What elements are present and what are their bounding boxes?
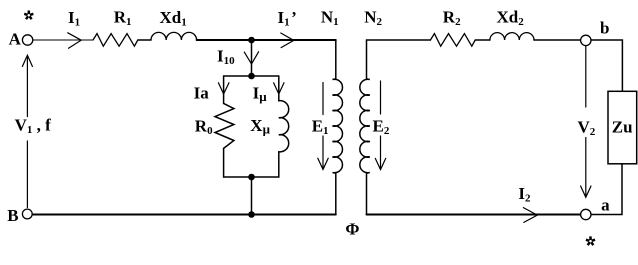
- svg-text:R2: R2: [443, 8, 461, 29]
- wire R0 bottom stub: [223, 148, 225, 177]
- polarity star near A: [24, 11, 33, 20]
- terminal b: [581, 35, 591, 45]
- wire R2 to Xd2: [475, 39, 490, 41]
- inductor Xmu: [279, 101, 289, 152]
- svg-text:b: b: [600, 18, 609, 37]
- svg-text:R0: R0: [195, 117, 213, 138]
- wire Imu branch stub: [278, 76, 280, 101]
- transformer secondary winding N2: [360, 40, 370, 215]
- resistor R1: [93, 34, 138, 47]
- svg-text:V1 , f: V1 , f: [15, 116, 52, 137]
- wire Ia branch stub: [223, 76, 225, 103]
- arrow Imu: [274, 83, 284, 94]
- arrow E2: [375, 81, 385, 170]
- svg-text:Φ: Φ: [345, 220, 359, 239]
- svg-text:N2: N2: [364, 7, 382, 28]
- wire Zu to terminal a: [591, 164, 622, 215]
- wire shunt top rail: [224, 75, 279, 77]
- wire shunt to bottom bus: [251, 177, 253, 215]
- svg-text:Iμ: Iμ: [253, 84, 268, 105]
- arrow Ia: [218, 83, 229, 94]
- wire bottom bus secondary to a: [367, 214, 581, 216]
- wire bottom bus B to junction: [33, 214, 252, 216]
- arrow I1: [68, 33, 81, 48]
- terminal a: [581, 209, 591, 219]
- wire b to right corner: [591, 40, 622, 91]
- resistor R2: [430, 34, 475, 47]
- svg-text:a: a: [601, 195, 610, 214]
- wire R1 to Xd1: [138, 39, 151, 41]
- svg-text:Xμ: Xμ: [250, 116, 270, 137]
- svg-text:Ia: Ia: [194, 84, 210, 103]
- terminal A: [22, 35, 32, 45]
- wire junction to primary top corner: [252, 39, 336, 41]
- junction node at I10 tap: [248, 37, 255, 44]
- svg-text:I1: I1: [68, 8, 80, 29]
- svg-text:N1: N1: [321, 7, 339, 28]
- inductor Xd1: [151, 32, 197, 40]
- arrow I1': [281, 33, 294, 48]
- arrow I2: [523, 208, 537, 223]
- wire Xd2 to terminal b: [534, 39, 581, 41]
- arrow V1: [22, 55, 32, 207]
- wire shunt bottom rail: [224, 176, 279, 178]
- svg-text:Zu: Zu: [612, 117, 633, 136]
- arrow V2: [581, 46, 591, 198]
- inductor Xd2: [490, 33, 534, 40]
- svg-text:I1’: I1’: [278, 8, 297, 29]
- svg-text:A: A: [9, 30, 22, 49]
- wire A to R1: [33, 39, 93, 41]
- arrow I10: [244, 52, 258, 64]
- polarity star near a: [586, 236, 595, 245]
- wire Xmu bottom stub: [278, 152, 280, 177]
- junction node bottom bus: [248, 211, 255, 218]
- wire Xd1 to node N1-junction: [197, 39, 252, 41]
- load Zu box: [608, 91, 637, 164]
- wire I10 branch: [251, 40, 253, 76]
- junction node shunt bottom: [248, 174, 255, 181]
- svg-text:I2: I2: [518, 184, 531, 205]
- arrow E1: [318, 83, 328, 170]
- resistor R0: [215, 103, 234, 148]
- svg-text:Xd2: Xd2: [497, 8, 525, 29]
- svg-text:I10: I10: [217, 46, 235, 67]
- terminal B: [22, 209, 32, 219]
- transformer primary winding N1: [333, 40, 343, 215]
- wire secondary top to R2: [367, 39, 431, 41]
- svg-text:E1: E1: [312, 117, 329, 138]
- svg-text:V2: V2: [578, 117, 596, 138]
- svg-text:Xd1: Xd1: [160, 8, 187, 29]
- wire junction to primary bottom corner: [252, 214, 336, 216]
- svg-text:B: B: [7, 206, 18, 225]
- svg-text:E2: E2: [373, 117, 390, 138]
- svg-text:R1: R1: [114, 8, 132, 29]
- junction node shunt top: [248, 73, 255, 80]
